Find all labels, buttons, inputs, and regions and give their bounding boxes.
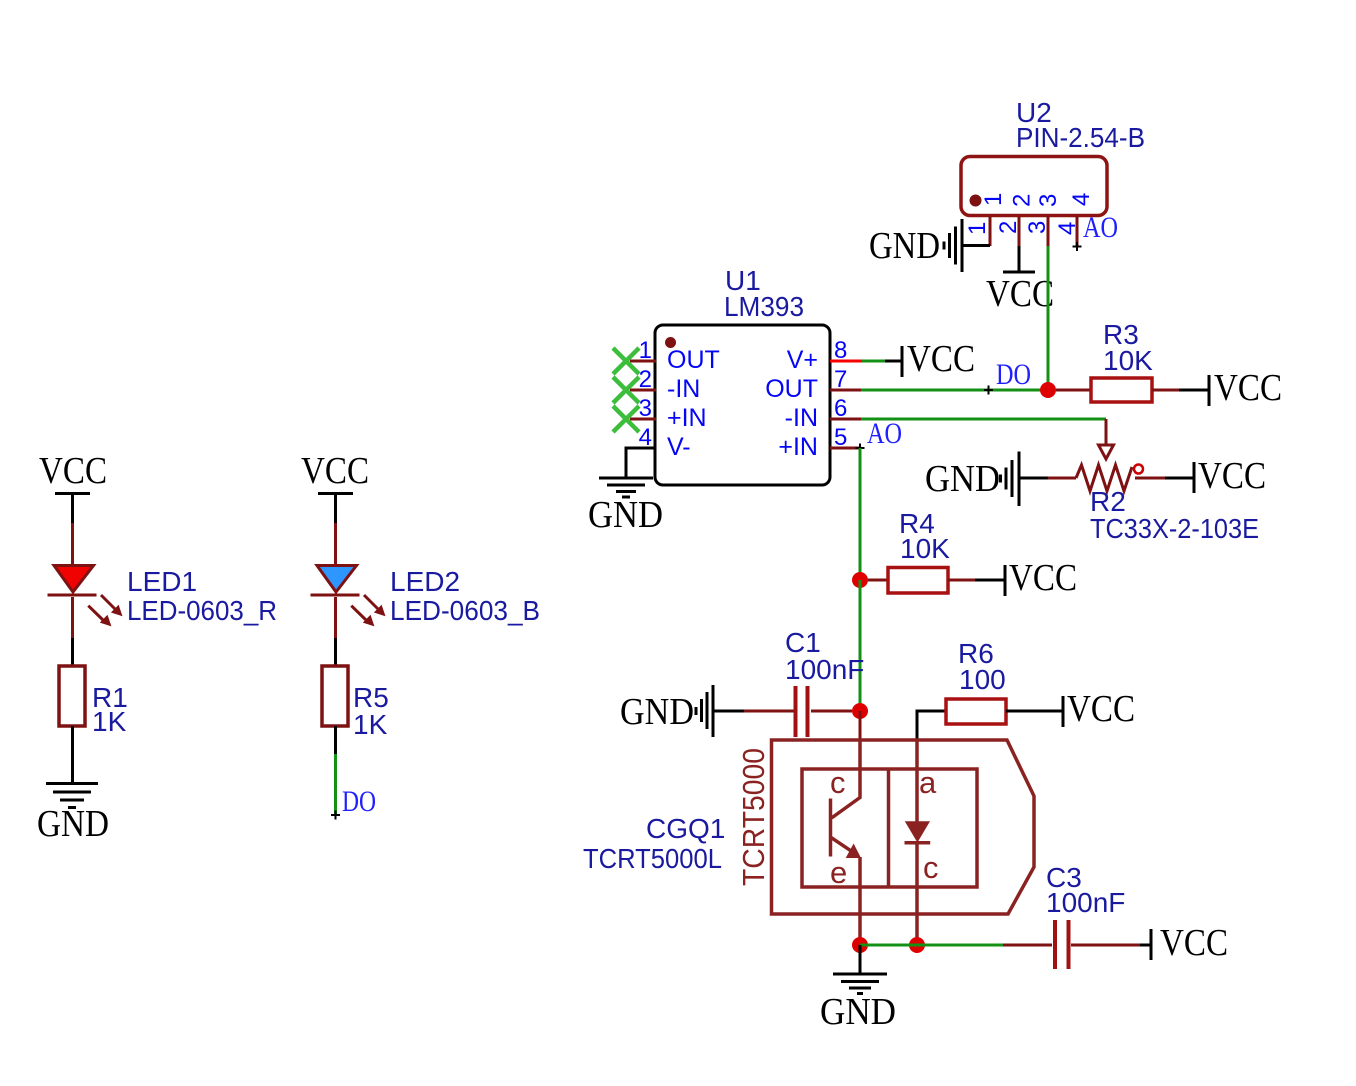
power VCC (LED1 top) — [39, 450, 107, 494]
wire R4 to VCC — [948, 579, 975, 582]
svg-text:1: 1 — [964, 222, 991, 235]
U2 pin 2 stub — [1018, 216, 1021, 246]
svg-text:VCC: VCC — [1009, 557, 1077, 599]
wire C1 to junction — [811, 710, 852, 713]
wire emitter down — [858, 857, 862, 945]
wire pin8 (black) — [885, 360, 902, 363]
svg-text:TCRT5000: TCRT5000 — [736, 748, 771, 886]
node AO junction (R4) — [852, 572, 868, 588]
R2 wiper terminal ring — [1134, 465, 1143, 474]
wire GND to R2 — [1019, 477, 1048, 480]
svg-text:PIN-2.54-B: PIN-2.54-B — [1016, 122, 1145, 153]
svg-text:100nF: 100nF — [785, 654, 864, 685]
svg-text:GND: GND — [588, 494, 663, 536]
wire R1 to GND — [71, 726, 74, 783]
svg-text:2: 2 — [639, 366, 652, 393]
svg-text:c: c — [830, 765, 846, 800]
svg-text:3: 3 — [1024, 221, 1051, 234]
U2 pin 4 stub — [1076, 216, 1079, 246]
U1 pin 2 stub — [630, 389, 656, 392]
wire net AO vertical — [859, 448, 862, 580]
svg-text:1: 1 — [980, 193, 1007, 206]
ground (LED1) — [37, 784, 109, 846]
svg-text:LM393: LM393 — [724, 291, 804, 322]
wire R3 to VCC — [1152, 389, 1179, 392]
LED LED2 — [311, 566, 386, 627]
potentiometer R2 zigzag — [1076, 465, 1132, 491]
svg-text:AO: AO — [1083, 211, 1118, 244]
wire pin1 to GND — [963, 244, 990, 247]
wire pin6 to R2 wiper — [861, 418, 1106, 421]
resistor R3 — [1091, 378, 1152, 402]
R2 wiper arrow — [1099, 445, 1114, 459]
svg-text:VCC: VCC — [1214, 367, 1282, 409]
wire wiper drop — [1105, 419, 1108, 446]
wire R6 to anode — [917, 711, 946, 740]
svg-text:VCC: VCC — [301, 450, 369, 492]
svg-text:2: 2 — [1009, 194, 1036, 207]
svg-text:GND: GND — [820, 991, 896, 1033]
phototransistor emitter — [831, 837, 851, 850]
svg-text:-IN: -IN — [667, 375, 700, 403]
phototransistor base bar — [829, 799, 833, 857]
wire AO down to C1 junction — [859, 580, 862, 711]
wire DO junction to R3 — [1056, 389, 1091, 392]
wire pin3 to DO junction — [1047, 246, 1050, 390]
svg-text:-IN: -IN — [785, 404, 818, 432]
wire junction to R4 — [868, 579, 888, 582]
U1 pin 3 stub — [630, 418, 656, 421]
node junction (cathode) — [909, 937, 925, 953]
svg-text:OUT: OUT — [667, 346, 720, 374]
svg-text:V+: V+ — [787, 346, 818, 374]
wire VCC to LED1 — [71, 495, 74, 523]
ground (U1 pin4) — [588, 478, 663, 536]
U1 pin 1 stub — [630, 360, 656, 363]
resistor R4 — [888, 568, 948, 594]
capacitor C3 — [1055, 920, 1069, 969]
wire C3 to VCC — [1071, 944, 1140, 947]
ground (bottom) — [820, 974, 896, 1033]
svg-text:GND: GND — [37, 803, 109, 845]
LED LED1 — [48, 566, 123, 627]
svg-text:TCRT5000L: TCRT5000L — [583, 843, 722, 874]
wire pin8 (green) — [862, 360, 885, 363]
svg-text:c: c — [923, 850, 939, 885]
capacitor C1 — [796, 686, 808, 737]
svg-text:3: 3 — [639, 395, 652, 422]
power VCC (pin8) — [902, 338, 975, 380]
svg-text:DO: DO — [996, 358, 1031, 391]
power VCC (R2) — [1194, 455, 1266, 497]
power VCC (U2 pin2, downward) — [986, 272, 1054, 315]
power VCC (LED2 top) — [301, 450, 369, 494]
no-connect X pin1 — [613, 348, 639, 374]
wire pin4 to GND — [626, 448, 656, 478]
svg-text:e: e — [830, 855, 847, 890]
U1 pin 5 stub — [830, 447, 861, 450]
resistor R6 — [946, 699, 1006, 724]
svg-text:2: 2 — [995, 221, 1022, 234]
power VCC (R6) — [1063, 688, 1135, 730]
wire junctions (green) — [860, 944, 1003, 947]
svg-text:LED-0603_R: LED-0603_R — [127, 595, 277, 626]
svg-text:TC33X-2-103E: TC33X-2-103E — [1090, 513, 1259, 544]
wire tick (U2 pin4) — [1073, 242, 1082, 251]
IR LED cathode bar — [905, 841, 931, 845]
svg-text:OUT: OUT — [765, 375, 818, 403]
svg-text:100nF: 100nF — [1046, 887, 1125, 918]
power VCC (R4) — [1005, 557, 1077, 599]
svg-text:LED1: LED1 — [127, 566, 197, 597]
wire LED2 to R5 — [334, 597, 337, 638]
wire pin8 (red) — [830, 360, 862, 363]
sensor CGQ1 outline — [772, 740, 1035, 914]
resistor R5 — [322, 666, 348, 726]
svg-text:LED2: LED2 — [390, 566, 460, 597]
wire R2 to VCC — [1135, 477, 1165, 480]
no-connect X pin2 — [613, 377, 639, 403]
wire VCC to LED2 — [334, 495, 337, 523]
node DO end tick — [331, 811, 340, 820]
svg-text:CGQ1: CGQ1 — [646, 813, 725, 844]
wire anode down — [915, 740, 919, 822]
wire net DO — [334, 754, 337, 815]
svg-text:3: 3 — [1035, 194, 1062, 207]
svg-text:100: 100 — [959, 664, 1006, 695]
wire R6 to VCC — [1006, 710, 1063, 713]
wire (pin) — [71, 523, 74, 566]
U2 pin 3 stub — [1047, 216, 1050, 246]
svg-text:DO: DO — [342, 785, 376, 818]
svg-text:a: a — [919, 765, 937, 800]
wire junction into sensor — [859, 711, 862, 740]
svg-text:GND: GND — [620, 691, 694, 733]
wire LED1 to R1 — [71, 597, 74, 638]
svg-text:VCC: VCC — [986, 273, 1054, 315]
node junction (C1/AO) — [852, 703, 868, 719]
svg-text:10K: 10K — [1103, 345, 1153, 376]
U1 pin 7 stub — [830, 389, 861, 392]
wire to C3 — [1003, 944, 1052, 947]
U2 pin1 marker dot — [970, 195, 982, 207]
svg-text:VCC: VCC — [907, 338, 975, 380]
wire GND to C1 — [713, 710, 744, 713]
svg-text:1K: 1K — [353, 709, 388, 740]
op-amp U1 body — [655, 325, 830, 485]
phototransistor Q (collector wire) — [832, 740, 861, 818]
wire tick — [984, 386, 993, 395]
U1 pin1 marker dot — [665, 337, 676, 348]
svg-text:AO: AO — [867, 417, 902, 450]
svg-text:4: 4 — [1054, 222, 1081, 235]
sensor inner boxes — [802, 769, 977, 887]
power VCC (R3) — [1209, 367, 1282, 409]
wire pin2 to VCC — [1018, 246, 1021, 271]
svg-text:+IN: +IN — [778, 433, 818, 461]
ground (C1, rotated style) — [620, 685, 713, 737]
wire cathode down — [915, 844, 919, 945]
svg-text:V-: V- — [667, 433, 691, 461]
resistor R1 — [59, 666, 85, 726]
U2 pin 1 stub — [989, 216, 992, 246]
svg-text:GND: GND — [869, 225, 940, 267]
svg-text:LED-0603_B: LED-0603_B — [390, 595, 540, 626]
svg-text:VCC: VCC — [39, 450, 107, 492]
svg-text:4: 4 — [1068, 193, 1095, 206]
node junction (emitter/GND) — [852, 937, 868, 953]
svg-text:VCC: VCC — [1160, 922, 1228, 964]
no-connect X pin3 — [613, 406, 639, 432]
IR LED diode triangle — [905, 821, 930, 842]
svg-text:10K: 10K — [900, 533, 950, 564]
svg-text:GND: GND — [925, 458, 1000, 500]
svg-text:VCC: VCC — [1067, 688, 1135, 730]
wire net DO (pin7) — [861, 389, 1044, 392]
svg-text:+IN: +IN — [667, 404, 707, 432]
wire tick (pin5) — [856, 444, 865, 453]
svg-text:1K: 1K — [92, 706, 127, 737]
ground (U2 pin1, rotated style) — [869, 219, 962, 272]
U1 pin 6 stub — [830, 418, 861, 421]
power VCC (C3) — [1151, 922, 1228, 964]
ground (R2, rotated style) — [925, 452, 1019, 507]
wire R5 down — [334, 726, 337, 754]
svg-text:1: 1 — [639, 337, 652, 364]
node DO junction — [1040, 382, 1056, 398]
wire junction to GND — [859, 945, 862, 973]
wire (pin) — [334, 523, 337, 566]
emitter arrowhead — [846, 844, 861, 859]
svg-text:VCC: VCC — [1198, 455, 1266, 497]
connector U2 body — [961, 157, 1107, 216]
